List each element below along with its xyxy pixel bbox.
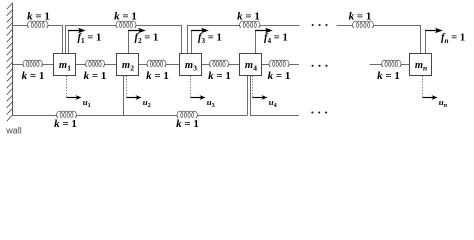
svg-text:k = 1: k = 1 [349, 11, 372, 23]
svg-text:k = 1: k = 1 [114, 11, 137, 23]
svg-text:m: m [185, 60, 193, 71]
svg-text:2: 2 [130, 63, 134, 72]
svg-text:k = 1: k = 1 [268, 70, 291, 82]
svg-text:k = 1: k = 1 [27, 11, 50, 23]
svg-text:m: m [245, 60, 253, 71]
svg-text:m: m [415, 60, 423, 71]
svg-text:k = 1: k = 1 [54, 118, 77, 130]
svg-text:4: 4 [253, 63, 257, 72]
svg-text:n: n [423, 63, 427, 72]
svg-text:k = 1: k = 1 [146, 70, 169, 82]
svg-text:wall: wall [5, 126, 22, 136]
svg-text:m: m [59, 60, 67, 71]
svg-text:k = 1: k = 1 [84, 70, 107, 82]
svg-text:k = 1: k = 1 [208, 70, 231, 82]
svg-text:k = 1: k = 1 [237, 11, 260, 23]
svg-text:k = 1: k = 1 [176, 118, 199, 130]
svg-text:1: 1 [67, 63, 71, 72]
svg-text:k = 1: k = 1 [377, 70, 400, 82]
svg-text:3: 3 [193, 63, 197, 72]
svg-text:k = 1: k = 1 [22, 70, 45, 82]
svg-text:m: m [122, 60, 130, 71]
